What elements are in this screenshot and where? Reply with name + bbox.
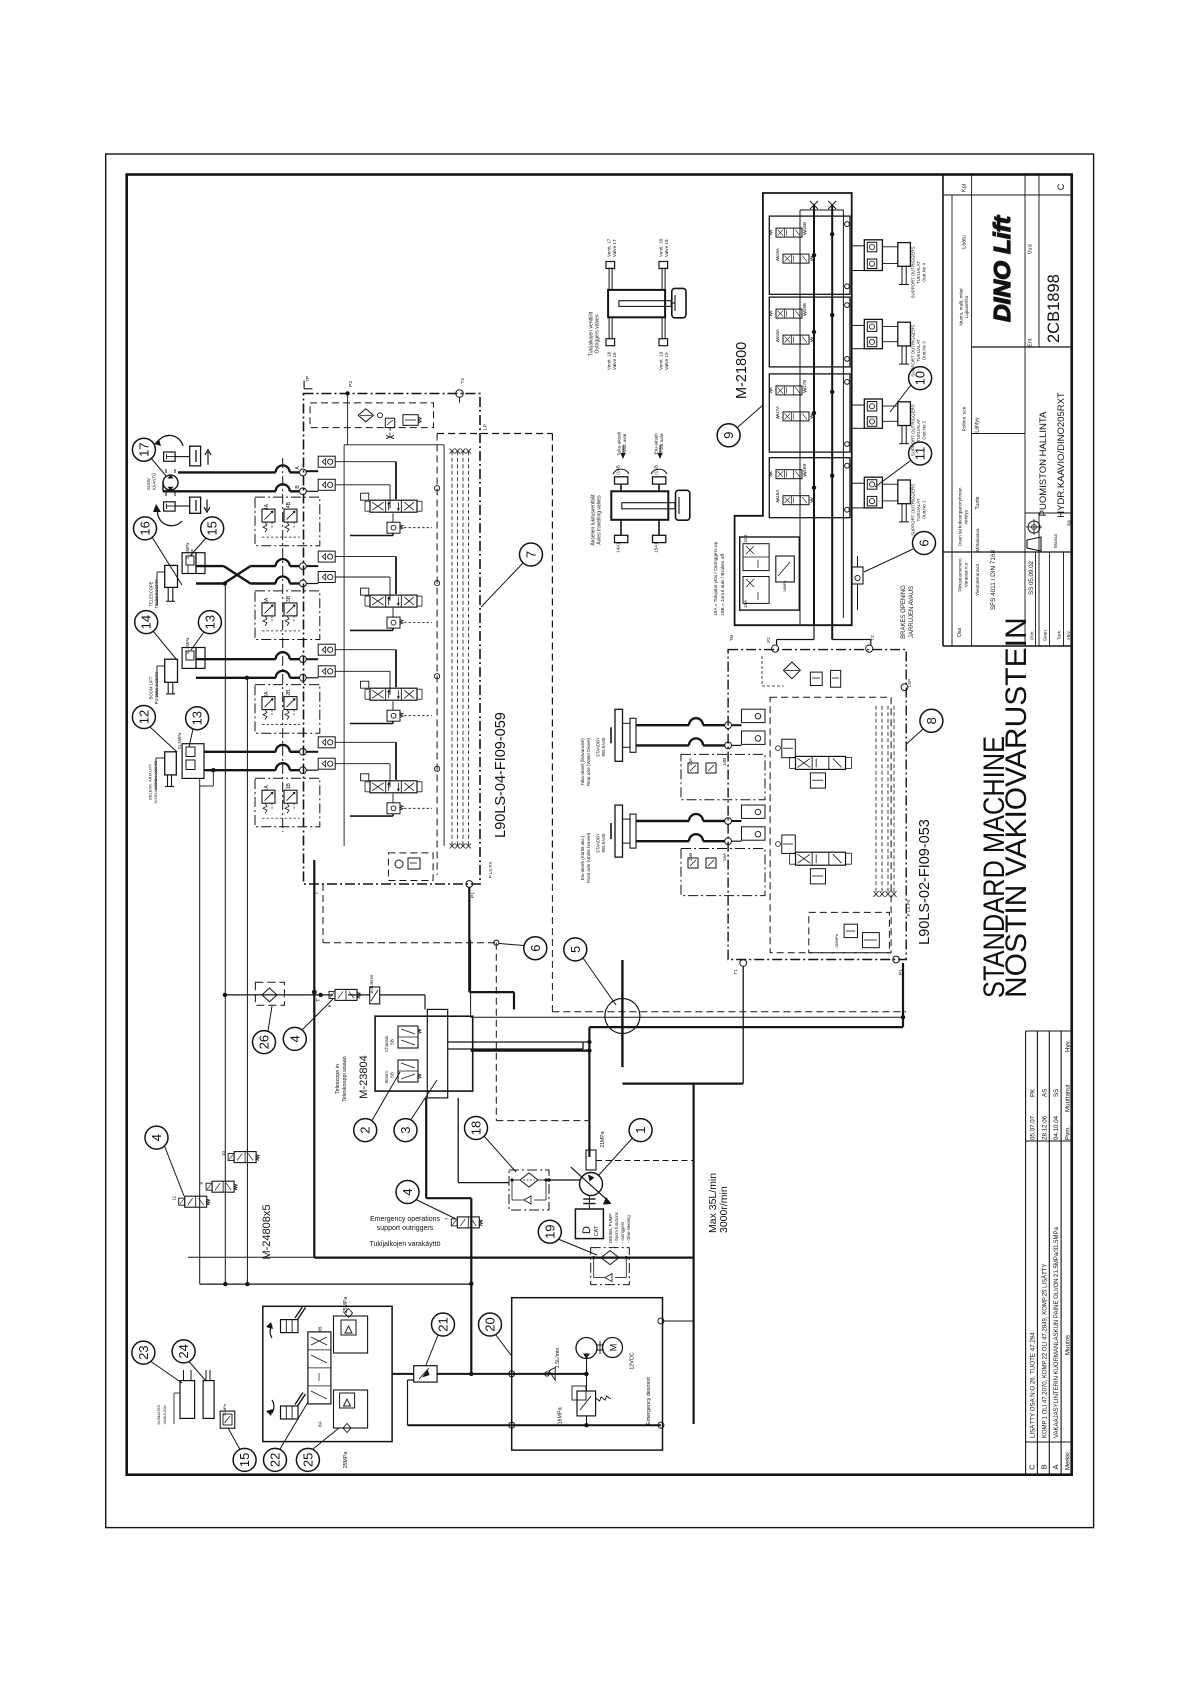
svg-text:TM: TM (729, 634, 734, 641)
leader 7 to L90LS-04 (481, 563, 523, 607)
svg-text:Ventt. 17: Ventt. 17 (607, 238, 612, 257)
leader 6 to LS node (499, 944, 525, 946)
svg-text:Muoto, malli, mitat: Muoto, malli, mitat (959, 288, 964, 326)
wire chassis line (471, 940, 906, 1019)
L90LS-04 outlet section (314, 853, 493, 898)
counterbalance box 1A/1B (dash-dot) (255, 778, 320, 827)
svg-text:LP: LP (483, 424, 489, 430)
svg-text:15: 15 (205, 521, 220, 535)
svg-text:Boom: Boom (384, 1071, 389, 1083)
svg-text:7: 7 (444, 1217, 449, 1220)
return filter (item 19) (591, 1248, 630, 1285)
outer drawing border (106, 154, 1094, 1528)
brakes opening label (901, 585, 915, 639)
svg-text:16MPa: 16MPa (558, 1407, 564, 1424)
svg-text:PK: PK (1030, 1088, 1037, 1097)
svg-text:Osa: Osa (957, 628, 963, 637)
svg-text:Hyv.: Hyv. (1065, 1040, 1072, 1052)
leader 23 to hand pump (151, 1362, 182, 1384)
label telescope in (335, 1056, 348, 1102)
svg-text:1A: 1A (264, 784, 270, 791)
projection symbol (1026, 519, 1042, 551)
M-21800 section 4 (769, 458, 850, 518)
svg-text:- drive steering: - drive steering (626, 1215, 631, 1243)
title block small labels (957, 183, 1073, 641)
jib valve drain elbow (200, 770, 214, 786)
svg-text:10: 10 (913, 371, 928, 385)
descent left drop wire (408, 1380, 414, 1425)
svg-text:P3: P3 (348, 381, 354, 387)
M-23804 work port line (448, 1040, 592, 1049)
svg-text:4A: 4A (264, 503, 270, 510)
svg-text:Outr.No 2: Outr.No 2 (922, 420, 927, 439)
svg-text:KÄÄNTÖ: KÄÄNTÖ (152, 472, 157, 490)
svg-text:- outriggers: - outriggers (620, 1222, 625, 1243)
svg-text:Muuttanut: Muuttanut (1065, 1084, 1072, 1112)
svg-text:16A: 16A (775, 489, 780, 498)
hand pump pistons (156, 1370, 214, 1425)
M-23804 boom spool (384, 1060, 421, 1083)
axle labels with arrows (591, 432, 666, 546)
port P3 (345, 381, 354, 445)
balloon item 22 (264, 1448, 287, 1471)
hydraulic motor slew (rotator) (146, 469, 178, 496)
L90LS-04 section 1 pressure compensator (350, 766, 440, 816)
svg-text:Front axle (Under bonnet): Front axle (Under bonnet) (586, 832, 591, 883)
leader 20 to descent box (496, 1335, 512, 1357)
svg-text:Valve 16: Valve 16 (612, 352, 617, 370)
svg-text:1B: 1B (286, 782, 292, 789)
svg-text:5B: 5B (390, 1039, 395, 1045)
svg-text:23: 23 (136, 1345, 151, 1359)
balloon item 4 (283, 1027, 306, 1050)
L90LS-02 section 1 spool valve (790, 756, 852, 788)
svg-text:15A: 15A (743, 599, 748, 608)
leader 10 to outrigger 2 (890, 385, 911, 412)
svg-text:22: 22 (268, 1453, 283, 1467)
label L90LS-02-FI09-053 (917, 819, 933, 945)
M-21800 brake section 15A/15B (740, 535, 800, 610)
svg-text:4: 4 (400, 1188, 415, 1195)
balloon item 6 (913, 532, 936, 555)
svg-text:15A = Tukijalat ylös / Outrigg: 15A = Tukijalat ylös / Outriggers up (713, 541, 719, 616)
hose boom B (196, 671, 306, 681)
pump drive shaft node (circle) (605, 960, 640, 1067)
power pack check valve box lower (334, 1390, 368, 1433)
pump coupling (583, 1196, 595, 1210)
counterbalance box 3A/3B (dash-dot) (255, 591, 320, 640)
svg-text:SUPPORT OUTRIGGERS: SUPPORT OUTRIGGERS (911, 484, 916, 536)
leader 4 to pilot solenoid (302, 999, 333, 1030)
leader 8 to L90LS-02 (907, 729, 924, 744)
balloon item 6 (524, 937, 547, 960)
svg-text:HYDR.KAAVIO/DINO205RXT: HYDR.KAAVIO/DINO205RXT (1056, 392, 1067, 518)
svg-text:31.5MPa: 31.5MPa (185, 542, 190, 559)
label 25MPa top (343, 1297, 349, 1314)
leader 22 to selector (280, 1402, 308, 1449)
svg-text:2A: 2A (264, 691, 270, 698)
svg-text:Pvm.: Pvm. (1065, 1126, 1072, 1140)
port TP (304, 376, 312, 389)
balloon item 3 (394, 1119, 417, 1142)
descent relief valve 16MPa (558, 1386, 611, 1424)
L90LS-04 section 4 spool valve (361, 493, 422, 512)
svg-text:Yleistoleranssit: Yleistoleranssit (975, 563, 981, 596)
svg-text:Axles travelling valves: Axles travelling valves (597, 495, 603, 545)
balloon item 25 (296, 1448, 319, 1471)
svg-text:Massa: Massa (1053, 534, 1059, 548)
svg-text:04.10.04: 04.10.04 (1053, 1115, 1060, 1140)
svg-text:15: 15 (237, 1453, 252, 1467)
balloon item 18 (465, 1117, 488, 1140)
svg-text:Telescope in: Telescope in (335, 1064, 341, 1094)
hose boom A (196, 652, 306, 662)
svg-text:L90LS-04-FI09-059: L90LS-04-FI09-059 (493, 712, 509, 838)
svg-text:Suun.: Suun. (1043, 629, 1049, 642)
return wire through filter 19 (188, 1256, 694, 1258)
leader 11 to lock valve 1 (875, 461, 910, 487)
svg-text:13: 13 (190, 711, 205, 725)
svg-text:D: D (581, 1226, 593, 1234)
L90LS-04 section 2 work ports (306, 644, 396, 695)
svg-text:Outr.No 4: Outr.No 4 (922, 263, 927, 282)
emergency operations solenoid (item 4) (444, 1217, 482, 1228)
svg-text:Ventt. 16: Ventt. 16 (607, 351, 612, 370)
svg-text:4: 4 (149, 1134, 164, 1141)
boom cylinder (149, 659, 178, 704)
svg-text:JARRUJEN AVAUS: JARRUJEN AVAUS (909, 586, 915, 638)
svg-text:24: 24 (176, 1344, 191, 1358)
M-21800 section 2 (769, 297, 850, 367)
svg-text:M: M (609, 1344, 619, 1352)
descent right edge wires (658, 1318, 694, 1324)
svg-text:20: 20 (483, 1317, 498, 1331)
svg-text:14: 14 (139, 615, 154, 629)
svg-text:15B: 15B (688, 853, 693, 861)
balloon item 8 (920, 709, 943, 732)
L90LS-04 section 3 work ports (306, 551, 396, 600)
svg-text:16B: 16B (802, 464, 807, 472)
leader 1 to pump (598, 1139, 632, 1177)
M-23804 chassis spool (384, 1026, 421, 1052)
solenoid valve 9 (199, 1181, 237, 1192)
outrigger cylinder 2 with lock valve (852, 399, 927, 456)
label 25MPa bottom (343, 1452, 349, 1469)
leader 19 to filter (558, 1239, 597, 1255)
svg-text:31.5MPa: 31.5MPa (177, 732, 182, 749)
title PUOMISTON HALLINTA (1038, 411, 1049, 516)
L90LS-02 section 1 ports/checks (725, 709, 765, 749)
T1 return drop (622, 966, 743, 1084)
solenoid valve 11 (172, 1195, 210, 1207)
brake actuator 1 (580, 709, 636, 786)
svg-text:Laatu: Laatu (962, 235, 968, 249)
leader 5 to pump shaft node (583, 958, 616, 1005)
counterbalance box 2A/2B (dash-dot) (255, 685, 320, 734)
leader 25 to check box (313, 1428, 339, 1449)
leader 12 to jib cylinder (150, 727, 177, 752)
svg-text:26: 26 (257, 1035, 272, 1049)
svg-text:11: 11 (913, 447, 928, 461)
leader 2 to M-23804 spool (372, 1072, 400, 1121)
L90LS-02 section 2 ports/checks (725, 805, 765, 845)
balloon item 5 (564, 938, 587, 961)
svg-text:2B: 2B (286, 689, 292, 696)
svg-text:13: 13 (202, 615, 217, 629)
sheet title STANDARD MACHINE (978, 736, 1011, 998)
revision rows text (1028, 1040, 1072, 1470)
svg-text:Chassis: Chassis (384, 1035, 389, 1052)
L90LS-02 inlet cluster (762, 656, 841, 687)
svg-text:19: 19 (542, 1224, 557, 1238)
svg-text:KOMP.1 OLI 47.2070, KOMP.22 OL: KOMP.1 OLI 47.2070, KOMP.22 OLI 47.2849,… (1041, 1264, 1048, 1438)
svg-text:SS: SS (1053, 1089, 1060, 1097)
hand pump release valve (item 15) (220, 1403, 235, 1428)
hose brake 2 A/B (636, 814, 725, 841)
machine boundary line (dash-dot) (282, 458, 284, 832)
solenoid valve 10 (221, 1151, 259, 1163)
svg-text:160MPa: 160MPa (835, 933, 839, 948)
pilot bus wire (200, 1282, 472, 1286)
balloon item 1 (629, 1119, 652, 1142)
outrigger valve labels (589, 238, 670, 370)
svg-text:(14B: (14B (616, 465, 621, 475)
svg-text:Tuote: Tuote (975, 496, 981, 509)
svg-text:4: 4 (287, 1035, 302, 1042)
svg-text:25MPa: 25MPa (343, 1452, 349, 1469)
svg-text:SFS 4011 / DIN 7168: SFS 4011 / DIN 7168 (990, 549, 997, 610)
counterbalance valve jib (item 13) (177, 732, 204, 778)
counterbalance box 4A/4B (dash-dot) (255, 497, 320, 546)
balloon item 17 (132, 438, 155, 461)
svg-text:DINO Lift: DINO Lift (989, 215, 1015, 322)
svg-text:L90LS-02-FI09-053: L90LS-02-FI09-053 (917, 819, 933, 945)
svg-text:25: 25 (300, 1453, 315, 1467)
svg-text:Valve 17: Valve 17 (612, 239, 617, 257)
svg-text:A: A (1051, 1464, 1060, 1469)
leader 26 to filter (268, 1006, 272, 1031)
svg-text:15B = Jarrut auki / Brakes off: 15B = Jarrut auki / Brakes off (720, 553, 726, 616)
svg-text:CAT: CAT (594, 1225, 600, 1236)
svg-text:3000r/min: 3000r/min (718, 1186, 730, 1233)
pressure line to L90LS-02 P1 (bold) (587, 963, 903, 1053)
emergency descent box (item 20) (512, 1298, 663, 1450)
svg-text:F2: F2 (766, 637, 772, 643)
descent bottom wire (bold) (408, 1422, 664, 1428)
leader 21 to throttle (426, 1335, 438, 1365)
rotator indicator down (153, 497, 210, 526)
leader 13 to valve (191, 632, 204, 650)
svg-text:SLEW: SLEW (146, 478, 151, 490)
M-21800 section 3 (769, 374, 850, 452)
suction wire to pump (547, 1178, 579, 1182)
counterbalance valve boom (item 13) (182, 637, 205, 668)
svg-text:9: 9 (199, 1181, 204, 1184)
suction filter (item 18) (509, 1170, 549, 1210)
svg-text:T2: T2 (870, 635, 876, 641)
orifice 0.8mm (369, 974, 380, 1004)
balloon item 4 (145, 1126, 168, 1149)
M-21800 outlet stubs (777, 584, 871, 645)
svg-text:- boom functions: - boom functions (614, 1212, 619, 1243)
L90LS-02 top ports (729, 634, 912, 690)
L90LS-04 section 3 spool valve (361, 588, 422, 607)
svg-text:17A: 17A (775, 405, 780, 414)
svg-text:kg: kg (1067, 520, 1073, 526)
svg-text:RELEASE: RELEASE (601, 737, 606, 757)
svg-text:Tark.: Tark. (1057, 630, 1063, 640)
svg-text:2: 2 (358, 1126, 373, 1133)
lever handle upper (266, 1306, 306, 1338)
lock valve box 14A/14B (dash-dot) (681, 754, 765, 799)
svg-text:TUKIJALAT: TUKIJALAT (916, 498, 921, 521)
svg-text:(15B: (15B (654, 465, 659, 475)
LS dashed line to pump compensator (552, 884, 906, 1012)
svg-text:TELESCOPE: TELESCOPE (149, 581, 154, 606)
svg-text:Emergency descent: Emergency descent (646, 1377, 652, 1425)
svg-text:STANDBY: STANDBY (596, 833, 601, 853)
svg-text:M-23804: M-23804 (358, 1055, 370, 1098)
balloon item 14 (135, 611, 158, 634)
svg-text:4B: 4B (286, 501, 292, 508)
svg-text:NIVELVARREN NOSTO: NIVELVARREN NOSTO (153, 761, 158, 804)
label emergency operations (370, 1216, 441, 1248)
port T3 (456, 378, 466, 403)
descent pump and motor (555, 1338, 652, 1425)
svg-text:10: 10 (221, 1151, 226, 1157)
hose slew B (163, 466, 306, 495)
counterbalance valve telescope (item 15) (182, 542, 205, 574)
brake actuator 2 (580, 805, 636, 883)
LS dashed drop from L90LS-04 (323, 884, 588, 1121)
balloon item 19 (538, 1220, 561, 1243)
M-21800 section 1 (769, 216, 850, 294)
L90LS-02 bottom relief box (dashed) (809, 912, 890, 952)
svg-text:AS: AS (1041, 1089, 1048, 1097)
svg-text:C: C (1028, 1464, 1037, 1470)
svg-text:Taka-akseli: Taka-akseli (617, 432, 623, 456)
svg-text:28.12.06: 28.12.06 (1041, 1115, 1048, 1140)
svg-text:Merkki: Merkki (1066, 1452, 1072, 1470)
label M-21800 (734, 342, 750, 399)
selector spool 8A/8B (308, 1327, 331, 1427)
emergency return wire (bold) (437, 1371, 588, 1377)
lever handle lower (266, 1393, 306, 1420)
svg-text:Ent.: Ent. (1028, 337, 1034, 346)
svg-text:Polttim. sce: Polttim. sce (962, 406, 968, 431)
sheet title NOSTIN VAKIOVARUSTEIN (1000, 617, 1033, 998)
svg-text:SS 05.09.02: SS 05.09.02 (1028, 560, 1035, 595)
lowering brake valve (852, 556, 863, 584)
throttle check valve (item 21) (414, 1366, 437, 1382)
svg-text:6: 6 (917, 539, 932, 546)
leader 9 to M-21800 (738, 405, 763, 427)
svg-text:14A: 14A (688, 757, 693, 766)
pump pressure riser (bold) (471, 1027, 590, 1157)
node T junction (312, 990, 322, 1002)
hose brake 1 A/B (636, 718, 725, 745)
svg-text:P LS PX: P LS PX (906, 899, 911, 916)
rotator indicator up (154, 435, 211, 465)
L90LS-04 LS dashed enclosure (437, 434, 552, 885)
balloon item 12 (132, 706, 155, 729)
balloon item 13 (198, 611, 221, 634)
tank line T from L90LS-04 (bold) (314, 884, 693, 1258)
svg-text:3A: 3A (264, 597, 270, 604)
LSP label (483, 424, 489, 430)
L90LS-04 internal P gallery (344, 445, 444, 846)
svg-text:05.07.07: 05.07.07 (1030, 1115, 1037, 1140)
svg-text:17: 17 (136, 442, 151, 456)
svg-text:25MPa: 25MPa (343, 1297, 349, 1314)
svg-text:16B: 16B (802, 222, 807, 230)
svg-text:9: 9 (721, 432, 736, 439)
DINO Lift logo (989, 215, 1015, 322)
svg-text:Taka-akseli (lisävaruste): Taka-akseli (lisävaruste) (580, 738, 585, 786)
L90LS-04 inlet compensator cluster (310, 403, 434, 439)
svg-text:Piirustusnumero: Piirustusnumero (958, 558, 963, 592)
svg-text:17B: 17B (802, 380, 807, 388)
svg-text:16: 16 (138, 521, 153, 535)
svg-text:21MPa: 21MPa (600, 1131, 606, 1148)
svg-text:P LS PX: P LS PX (488, 862, 493, 879)
leader 24 to piston (189, 1362, 206, 1382)
leader 17 to slew motor (151, 458, 166, 476)
svg-text:Hyv.: Hyv. (1066, 630, 1072, 639)
machine pictogram axle locking (611, 465, 690, 553)
svg-text:VAKUUNA: VAKUUNA (162, 1405, 167, 1424)
svg-text:TUKIJALAT: TUKIJALAT (916, 261, 921, 284)
telescope cylinder (149, 565, 178, 608)
diesel pump note (608, 1212, 631, 1243)
svg-text:16B: 16B (802, 303, 807, 311)
leader 4 to emergency solenoid (416, 1200, 456, 1220)
outrigger cylinder 3 with lock valve (852, 319, 927, 376)
wire pilot telescope to valve 9 (224, 584, 226, 1285)
svg-text:Etu-akseli: Etu-akseli (654, 433, 660, 454)
balloon item 13 (186, 707, 209, 730)
LS bus lines (450, 449, 472, 849)
diesel engine box D CAT (575, 1209, 603, 1239)
svg-text:15A): 15A) (654, 543, 659, 553)
balloon item 15 (201, 517, 224, 540)
L90LS-04 section 1 spool valve (361, 774, 422, 793)
svg-text:M-24808x5: M-24808x5 (261, 1204, 273, 1259)
balloon item 26 (253, 1031, 276, 1054)
svg-text:16A: 16A (775, 247, 780, 256)
valve block M-21800 outline (735, 193, 852, 625)
svg-text:C: C (1056, 183, 1066, 190)
svg-text:21: 21 (436, 1317, 451, 1331)
svg-text:Osan tai kokoonpanoryhmän: Osan tai kokoonpanoryhmän (958, 487, 963, 546)
svg-text:16A: 16A (775, 328, 780, 337)
svg-text:2CB1898: 2CB1898 (1045, 274, 1063, 343)
svg-text:PUOMIN NOSTO: PUOMIN NOSTO (154, 671, 159, 704)
leader 18 to filter (484, 1136, 516, 1172)
machine pictogram outriggers (606, 262, 686, 346)
svg-text:TELESKOOPPI: TELESKOOPPI (154, 579, 159, 608)
L90LS-04 section 2 pressure compensator (350, 674, 440, 724)
jib cylinder (148, 752, 177, 804)
subtitle HYDR.KAAVIO/DINO205RXT (1056, 392, 1067, 518)
L90LS-02 LS bus lines (874, 706, 897, 897)
power pack check valve box upper (334, 1309, 368, 1354)
leader 15 to valve 15 (190, 538, 206, 556)
label 21MPa (600, 1131, 606, 1148)
svg-text:LISÄTTY OSA N:O 26. TUOTE 47.2: LISÄTTY OSA N:O 26. TUOTE 47.294 (1030, 1332, 1037, 1438)
svg-text:15A: 15A (722, 852, 727, 861)
svg-text:TUKIJALAT: TUKIJALAT (916, 339, 921, 362)
